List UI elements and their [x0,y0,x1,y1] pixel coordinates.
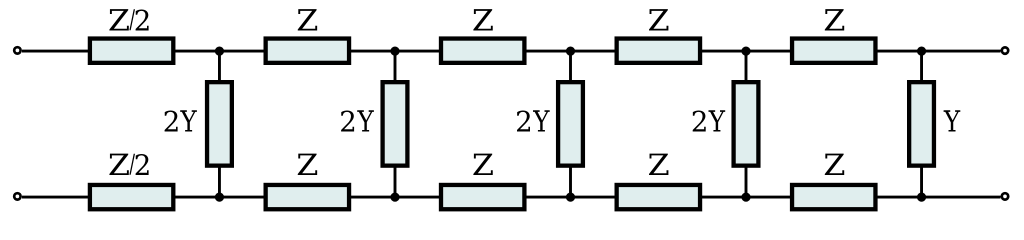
node junction top 1 [215,47,224,56]
resistor Z top 2 [266,9,349,63]
terminal top right [1002,47,1008,53]
admittance 2Y shunt 4 [693,82,759,165]
resistor Z top 4 [617,9,700,63]
resistor Z/2 top 1 [90,9,173,63]
resistor Z bottom 3 [441,154,524,210]
node junction top 3 [566,47,575,56]
resistor Z top 3 [441,9,524,63]
admittance 2Y shunt 3 [517,82,583,165]
node junction bottom 3 [566,193,575,202]
wire shunt column 2 [394,51,397,197]
wire top rail [22,50,1001,53]
admittance 2Y shunt 1 [165,82,232,165]
wire shunt column 3 [569,51,572,197]
node junction top 2 [390,47,399,56]
terminal bottom right [1002,193,1008,199]
node junction bottom 4 [741,193,750,202]
node junction top 4 [741,47,750,56]
node junction bottom 2 [390,193,399,202]
admittance 2Y shunt 2 [341,82,407,165]
wire shunt column 5 [920,51,923,197]
terminal top left [14,47,20,53]
admittance Y shunt 5 [909,82,960,165]
resistor Z top 5 [792,9,875,63]
wire shunt column 1 [218,51,221,197]
wire shunt column 4 [745,51,748,197]
wire bottom rail [22,196,1001,199]
resistor Z bottom 2 [266,154,349,210]
node junction top 5 [917,47,926,56]
resistor Z bottom 5 [792,154,875,210]
resistor Z bottom 4 [617,154,700,210]
resistor Z/2 bottom 1 [90,154,173,210]
node junction bottom 1 [215,193,224,202]
terminal bottom left [14,193,20,199]
node junction bottom 5 [917,193,926,202]
